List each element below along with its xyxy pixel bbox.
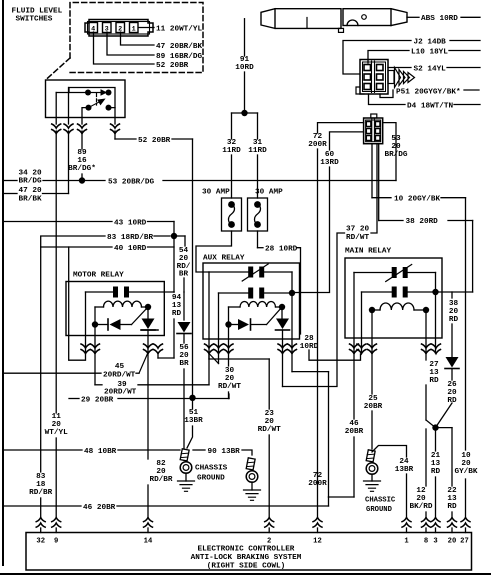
fuse F2 30 AMP	[248, 198, 268, 231]
motor relay diode D1	[95, 324, 108, 326]
electronic controller box	[26, 533, 472, 571]
wire 54 20 RD/BR branch	[184, 236, 186, 246]
svg-text:40 10RD: 40 10RD	[114, 245, 147, 253]
fuse F1 30 AMP	[222, 198, 242, 231]
svg-text:SWITCHES: SWITCHES	[16, 16, 53, 24]
svg-text:3: 3	[433, 537, 437, 545]
wire 52/51 vertical run	[192, 139, 194, 398]
wire D4 18WT/TN	[369, 94, 406, 105]
svg-text:89 16BR/DG: 89 16BR/DG	[156, 53, 203, 61]
svg-text:16: 16	[77, 157, 87, 165]
svg-text:30 AMP: 30 AMP	[202, 189, 230, 197]
ECU connector chevrons	[36, 518, 45, 528]
svg-text:BR/DG: BR/DG	[19, 177, 42, 185]
svg-text:13: 13	[429, 369, 439, 377]
wire from pin 1 to label 11 20WT/YL	[153, 27, 154, 29]
wire 43 10RD from border	[3, 221, 112, 223]
wire 83 18RD/BR horizontal	[41, 236, 105, 247]
svg-text:(RIGHT SIDE COWL): (RIGHT SIDE COWL)	[207, 563, 285, 571]
svg-text:72: 72	[313, 133, 323, 141]
svg-text:1: 1	[404, 537, 409, 545]
aux relay node	[225, 321, 231, 327]
aux relay diode D3	[229, 324, 239, 326]
wire 89 from switch down to splice 53	[81, 118, 83, 125]
wire ABS 10RD	[407, 16, 419, 18]
wire 21 13 RD to ECU pin 3	[435, 428, 437, 451]
wire 12 20 BK/RD to ECU pin 8	[425, 429, 427, 486]
svg-text:13: 13	[447, 495, 457, 503]
svg-text:20: 20	[461, 460, 471, 468]
wire 38 20RD from C101	[378, 144, 380, 221]
svg-text:83: 83	[36, 473, 46, 481]
svg-text:20: 20	[265, 418, 275, 426]
splice node 52/51/29	[189, 395, 195, 401]
svg-text:L10 18YL: L10 18YL	[411, 48, 448, 56]
svg-text:54: 54	[179, 247, 189, 255]
bottom page rule	[0, 573, 491, 575]
svg-text:23: 23	[265, 410, 275, 418]
svg-text:10: 10	[461, 452, 471, 460]
svg-text:91: 91	[240, 56, 250, 64]
svg-text:25: 25	[368, 395, 378, 403]
svg-text:22: 22	[447, 487, 457, 495]
svg-text:J2 14DB: J2 14DB	[414, 38, 447, 46]
wire 31 11RD to right fuse	[257, 113, 259, 139]
diode D6 on wire 56	[178, 322, 191, 333]
svg-text:20BR: 20BR	[364, 403, 383, 411]
svg-text:20: 20	[225, 375, 235, 383]
svg-text:56: 56	[179, 344, 189, 352]
svg-text:28 10RD: 28 10RD	[265, 246, 298, 254]
svg-text:90 13BR: 90 13BR	[208, 448, 241, 456]
switch S1 upper contact left	[85, 90, 91, 96]
svg-text:RD/BR: RD/BR	[29, 489, 52, 497]
pin 3 of C1	[103, 23, 112, 33]
svg-text:11 20WT/YL: 11 20WT/YL	[156, 25, 203, 33]
svg-text:ELECTRONIC CONTROLLER: ELECTRONIC CONTROLLER	[198, 546, 295, 554]
svg-text:46: 46	[349, 420, 359, 428]
aux relay frame left	[208, 272, 210, 353]
main relay capacitor	[362, 291, 392, 293]
svg-text:BR: BR	[179, 360, 189, 368]
svg-text:RD/WT: RD/WT	[346, 234, 369, 242]
svg-text:MAIN RELAY: MAIN RELAY	[345, 248, 392, 256]
svg-text:48 10BR: 48 10BR	[84, 448, 117, 456]
svg-text:BR/BK: BR/BK	[19, 196, 42, 204]
svg-text:52 20BR: 52 20BR	[156, 62, 189, 70]
wire S2 14YL	[388, 67, 411, 69]
aux relay coil	[240, 301, 276, 307]
aux relay cap left lead	[218, 293, 220, 353]
svg-text:9: 9	[54, 537, 58, 545]
svg-text:RD: RD	[431, 468, 441, 476]
wire 30 20 RD/WT	[228, 353, 230, 366]
switch S1 upper left lead	[56, 92, 88, 94]
svg-text:RD/BR: RD/BR	[149, 476, 172, 484]
svg-text:72: 72	[313, 472, 323, 480]
svg-text:20RD/WT: 20RD/WT	[103, 371, 136, 379]
svg-text:45: 45	[115, 363, 125, 371]
svg-text:8: 8	[424, 537, 428, 545]
svg-text:12: 12	[313, 537, 322, 545]
motor relay coil left lead	[94, 307, 96, 325]
wire 47 from switch down to left label	[68, 88, 70, 125]
wire 38 inside main relay down	[451, 292, 453, 298]
aux relay blade	[267, 307, 283, 325]
svg-text:52 20BR: 52 20BR	[138, 137, 171, 145]
wire 90 13BR	[193, 449, 205, 451]
motor relay coil	[104, 301, 142, 307]
splice node 43/83/94	[171, 233, 177, 239]
wire 10 20GY/BK from C101	[371, 144, 373, 198]
svg-text:20: 20	[179, 352, 189, 360]
motor relay diode D2 to ground side	[147, 307, 149, 319]
svg-text:RD: RD	[172, 310, 182, 318]
main relay frame right	[435, 273, 437, 354]
svg-text:21: 21	[431, 452, 441, 460]
wire 39 20RD/WT	[94, 373, 96, 385]
svg-text:ANTI-LOCK BRAKING SYSTEM: ANTI-LOCK BRAKING SYSTEM	[191, 554, 302, 562]
svg-text:30: 30	[225, 367, 235, 375]
svg-text:20: 20	[448, 537, 457, 545]
wire 53 20BR/DG horizontal	[43, 180, 79, 182]
motor relay common node	[92, 321, 98, 327]
wire 46 20BR bottom run	[3, 505, 81, 507]
wire 11 from switch to ECU pin 9	[55, 93, 57, 125]
svg-text:32: 32	[36, 537, 45, 545]
main relay cap node	[432, 289, 438, 295]
wire 32 11RD to left fuse	[231, 113, 233, 139]
wire L10 18YL	[368, 51, 409, 64]
svg-text:20: 20	[416, 495, 426, 503]
wire from pin 4 to label 52 20BR	[94, 32, 155, 64]
svg-text:27: 27	[460, 537, 469, 545]
svg-text:13RD: 13RD	[320, 159, 339, 167]
svg-text:20: 20	[391, 143, 401, 151]
aux relay coil left lead	[228, 307, 230, 325]
wire 51 13BR to chassis ground	[192, 398, 194, 409]
svg-text:18: 18	[36, 481, 46, 489]
label 47 20 BR/BK at left border	[3, 193, 17, 195]
svg-text:BK/RD: BK/RD	[409, 503, 432, 511]
svg-text:27: 27	[429, 361, 439, 369]
dashed enclosure for fluid level switch connector	[46, 3, 204, 81]
main relay K3 box	[345, 258, 442, 338]
aux relay capacitor	[219, 292, 249, 294]
wire 52 from switch to vertical run	[114, 108, 116, 124]
main relay coil right node	[423, 307, 429, 313]
svg-text:26: 26	[447, 381, 457, 389]
wire 37 lower segment	[282, 353, 284, 387]
left page border	[2, 0, 4, 565]
svg-text:CHASSIC: CHASSIC	[365, 497, 396, 505]
label 34 20 BR/DG at left border	[3, 180, 17, 182]
svg-text:CHASSIS: CHASSIS	[195, 465, 228, 473]
svg-text:1: 1	[132, 26, 136, 34]
aux relay cap node	[289, 290, 295, 296]
wire 27 13 RD	[425, 353, 427, 360]
svg-text:11RD: 11RD	[248, 147, 267, 155]
switch S1 upper contact right	[106, 90, 112, 96]
svg-text:11RD: 11RD	[222, 147, 241, 155]
wire 22 13 RD to ECU pin 20	[451, 428, 453, 486]
screw terminal S2	[388, 71, 394, 84]
motor relay capacitor	[86, 291, 114, 293]
svg-text:RD/WT: RD/WT	[258, 426, 281, 434]
wire 53 20 BR/DG from C101	[383, 123, 396, 181]
main relay coil	[380, 303, 414, 310]
svg-text:RD: RD	[449, 316, 459, 324]
svg-text:53: 53	[391, 135, 401, 143]
wire from pin 3 to label 89 16BR/DG	[107, 32, 154, 55]
svg-text:MOTOR RELAY: MOTOR RELAY	[73, 272, 124, 280]
svg-text:GY/BK: GY/BK	[454, 468, 477, 476]
svg-text:47 20BR/BK: 47 20BR/BK	[156, 43, 203, 51]
svg-text:20: 20	[449, 308, 459, 316]
wire 60 13RD from C101	[330, 132, 364, 150]
svg-text:38 20RD: 38 20RD	[406, 218, 439, 226]
svg-text:83 18RD/BR: 83 18RD/BR	[107, 234, 154, 242]
wire 40 branch down around motor relay	[69, 247, 86, 360]
svg-text:89: 89	[77, 149, 87, 157]
main relay frame left	[353, 273, 355, 354]
motor relay blade	[132, 307, 149, 325]
wire 82 20 RD/BR to ECU pin 14	[147, 353, 149, 459]
svg-text:32: 32	[227, 139, 237, 147]
wire 28 via aux relay right	[291, 353, 293, 372]
wire 94 13RD	[157, 353, 159, 358]
aux relay variable capacitor	[209, 271, 248, 273]
fusible link battery feed	[261, 9, 341, 29]
svg-text:20: 20	[156, 468, 166, 476]
wire 38 down to main relay	[472, 221, 474, 293]
switch S1 lower contact right	[106, 105, 112, 111]
wire 72 200R from C101	[318, 123, 364, 133]
wire from fuse F1 to aux relay feed	[196, 231, 232, 272]
svg-text:D4 18WT/TN: D4 18WT/TN	[407, 102, 454, 110]
svg-text:2: 2	[267, 537, 271, 545]
svg-text:13: 13	[431, 460, 441, 468]
svg-text:ABS 10RD: ABS 10RD	[421, 15, 458, 23]
svg-text:GROUND: GROUND	[197, 475, 225, 483]
motor relay coil node	[145, 304, 151, 310]
wire 39 up to aux relay	[208, 353, 210, 385]
wire 28 10RD from fuse F2	[257, 231, 259, 248]
svg-text:RD/WT: RD/WT	[218, 383, 241, 391]
svg-text:14: 14	[144, 537, 153, 545]
wire 40 10RD horizontal	[41, 246, 112, 248]
svg-text:31: 31	[253, 139, 263, 147]
diode D5 on wire 26 20 RD	[446, 357, 459, 368]
switch S1 gang link dashed	[96, 94, 98, 106]
pin 2 of C1	[116, 23, 125, 33]
wire from pin 2 to label 47 20BR/BK	[121, 32, 155, 45]
wire 25 20BR to chassis ground	[371, 353, 373, 394]
splice node battery feed	[241, 110, 247, 116]
svg-text:GROUND: GROUND	[366, 506, 393, 514]
wire 10 vertical run to pin 27	[465, 198, 467, 450]
fluid level switch S1 box	[46, 80, 126, 118]
svg-text:20BR: 20BR	[345, 428, 364, 436]
svg-text:BR/DG: BR/DG	[384, 151, 407, 159]
svg-text:94: 94	[172, 294, 182, 302]
chassis ground stud G1	[180, 449, 192, 473]
wire 23 20 RD/WT to ECU pin 2	[208, 353, 210, 359]
wire J2 14DB	[343, 41, 411, 75]
main relay connector chevrons	[350, 344, 359, 354]
svg-text:82: 82	[156, 460, 166, 468]
switch S1 inner top bus	[69, 88, 115, 108]
svg-text:200R: 200R	[308, 141, 327, 149]
wire 91 10RD from fusible link	[244, 19, 246, 56]
aux relay diode D4	[281, 307, 283, 319]
wire P51 20GYGY/BK*	[380, 90, 393, 98]
svg-text:38: 38	[449, 300, 459, 308]
svg-text:13: 13	[172, 302, 182, 310]
chassis ground stud G3	[366, 450, 378, 474]
aux relay frame right	[291, 272, 293, 353]
in-line connector to ABS feed	[343, 9, 391, 26]
aux relay jumper diagonal	[210, 355, 219, 364]
splice node wire 89 to 53	[79, 177, 85, 183]
wire 29 20BR	[69, 398, 79, 400]
svg-text:AUX RELAY: AUX RELAY	[203, 255, 245, 263]
connector C101 with wires 72/60/53/10/38	[371, 114, 377, 118]
wire 56 20 BR with diode	[173, 291, 175, 293]
motor relay connector chevrons	[81, 344, 90, 354]
svg-text:10 20GY/BK: 10 20GY/BK	[394, 195, 441, 203]
svg-text:29 20BR: 29 20BR	[81, 396, 114, 404]
svg-text:12: 12	[416, 487, 426, 495]
svg-text:24: 24	[399, 458, 409, 466]
wire 37 20 RD/WT from C101	[371, 144, 377, 233]
svg-text:RD: RD	[429, 377, 439, 385]
wire 45 20RD/WT	[3, 372, 101, 374]
svg-text:28: 28	[304, 335, 314, 343]
svg-text:11: 11	[52, 413, 62, 421]
pin 1 of C1	[130, 23, 139, 33]
motor relay cap left lead down	[85, 292, 87, 353]
svg-text:BR/DG*: BR/DG*	[68, 165, 96, 173]
aux relay coil node	[279, 304, 285, 310]
wire 46 20BR from main relay	[353, 353, 355, 419]
svg-text:46 20BR: 46 20BR	[83, 504, 116, 512]
wire 48 10BR from border	[3, 449, 82, 451]
svg-text:53 20BR/DG: 53 20BR/DG	[108, 178, 155, 186]
connector C100 engine harness	[360, 60, 388, 95]
main relay coil left node	[369, 307, 375, 313]
wire 37 down to aux relay	[283, 233, 345, 387]
switch S1 upper blade with arrow	[88, 92, 100, 94]
svg-text:RD/: RD/	[177, 263, 191, 271]
svg-text:13BR: 13BR	[184, 417, 203, 425]
wire 83 down to ECU pin 32	[40, 247, 42, 472]
svg-text:43 10RD: 43 10RD	[114, 219, 147, 227]
switch S1 lower contact left	[86, 105, 92, 111]
svg-text:37 20: 37 20	[346, 225, 369, 233]
main relay variable capacitor	[354, 272, 392, 274]
svg-text:P51 20GYGY/BK*: P51 20GYGY/BK*	[396, 88, 461, 96]
svg-text:10RD: 10RD	[235, 64, 254, 72]
svg-text:FLUID LEVEL: FLUID LEVEL	[12, 8, 63, 16]
svg-text:34 20: 34 20	[19, 169, 42, 177]
svg-text:RD: RD	[447, 503, 457, 511]
svg-text:S2 14YL: S2 14YL	[414, 65, 447, 73]
aux relay K2 box	[203, 263, 300, 339]
switch S1 lower blade arrow	[89, 99, 105, 107]
svg-text:20: 20	[52, 421, 62, 429]
chassis ground stud G2	[246, 458, 258, 482]
svg-text:200R: 200R	[308, 480, 327, 488]
svg-text:20: 20	[447, 389, 457, 397]
connector C1 fluid level switch 4-way	[85, 20, 153, 37]
svg-text:47 20: 47 20	[19, 187, 42, 195]
switch S1 lower left lead	[82, 108, 89, 118]
wire 24 13BR to ECU pin 1	[372, 446, 407, 458]
svg-text:WT/YL: WT/YL	[45, 429, 68, 437]
splice node 27/21/26/22	[432, 424, 438, 430]
svg-text:20: 20	[179, 255, 189, 263]
motor relay K1 box	[66, 282, 164, 336]
svg-text:60: 60	[325, 151, 335, 159]
svg-text:30 AMP: 30 AMP	[255, 189, 283, 197]
pin 4 of C1	[89, 23, 98, 33]
aux relay connector chevrons	[205, 344, 214, 354]
svg-text:13BR: 13BR	[395, 466, 414, 474]
svg-text:51: 51	[189, 409, 199, 417]
